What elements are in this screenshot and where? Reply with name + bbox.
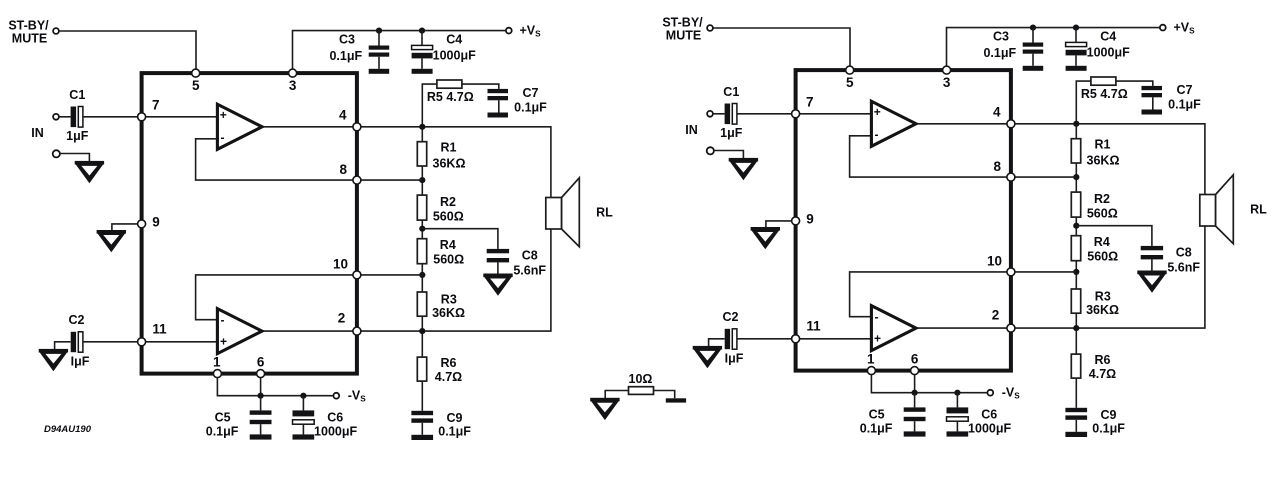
svg-text:560Ω: 560Ω xyxy=(433,210,464,224)
svg-text:C1: C1 xyxy=(69,88,85,102)
svg-text:0.1μF: 0.1μF xyxy=(206,424,239,438)
svg-text:+VS: +VS xyxy=(520,23,542,38)
svg-text:0.1μF: 0.1μF xyxy=(514,100,547,114)
svg-text:9: 9 xyxy=(152,215,160,230)
svg-text:36KΩ: 36KΩ xyxy=(432,306,465,320)
svg-text:-: - xyxy=(221,131,225,145)
svg-text:C5: C5 xyxy=(215,410,231,424)
svg-text:5: 5 xyxy=(192,78,200,93)
svg-text:5.6nF: 5.6nF xyxy=(513,263,546,277)
svg-text:4.7Ω: 4.7Ω xyxy=(435,370,462,384)
svg-text:IN: IN xyxy=(31,126,44,140)
svg-text:C7: C7 xyxy=(523,86,539,100)
svg-text:2: 2 xyxy=(338,311,346,326)
svg-text:-: - xyxy=(221,313,225,327)
svg-text:C8: C8 xyxy=(522,248,538,262)
svg-text:1000μF: 1000μF xyxy=(314,424,357,438)
svg-text:MUTE: MUTE xyxy=(12,32,47,46)
svg-text:7: 7 xyxy=(152,97,160,112)
svg-text:4: 4 xyxy=(339,107,347,122)
svg-text:+: + xyxy=(220,334,227,348)
svg-text:1000μF: 1000μF xyxy=(433,49,476,63)
svg-text:560Ω: 560Ω xyxy=(433,253,464,267)
svg-text:R2: R2 xyxy=(440,195,456,209)
svg-text:C2: C2 xyxy=(69,313,85,327)
svg-text:0.1μF: 0.1μF xyxy=(438,424,471,438)
svg-text:C6: C6 xyxy=(327,410,343,424)
svg-text:3: 3 xyxy=(289,78,297,93)
svg-text:+: + xyxy=(220,108,227,122)
svg-text:10: 10 xyxy=(333,257,348,272)
svg-text:6: 6 xyxy=(257,355,265,370)
svg-text:8: 8 xyxy=(339,162,347,177)
svg-text:-VS: -VS xyxy=(348,388,367,403)
svg-text:R6: R6 xyxy=(441,356,457,370)
svg-text:RL: RL xyxy=(596,206,613,220)
svg-text:1μF: 1μF xyxy=(66,129,89,143)
svg-text:0.1μF: 0.1μF xyxy=(329,49,362,63)
svg-text:1: 1 xyxy=(213,355,221,370)
svg-text:C4: C4 xyxy=(446,33,462,47)
svg-text:R3: R3 xyxy=(441,292,457,306)
svg-text:C9: C9 xyxy=(447,411,463,425)
svg-text:R4: R4 xyxy=(440,238,456,252)
svg-text:IμF: IμF xyxy=(71,355,90,369)
svg-text:R5 4.7Ω: R5 4.7Ω xyxy=(427,90,474,104)
svg-text:C3: C3 xyxy=(339,32,355,46)
svg-text:11: 11 xyxy=(152,322,167,337)
svg-text:D94AU190: D94AU190 xyxy=(44,424,92,435)
svg-text:ST-BY/: ST-BY/ xyxy=(8,19,49,33)
svg-text:10Ω: 10Ω xyxy=(629,372,653,386)
svg-text:36KΩ: 36KΩ xyxy=(433,157,466,171)
svg-text:R1: R1 xyxy=(441,141,457,155)
